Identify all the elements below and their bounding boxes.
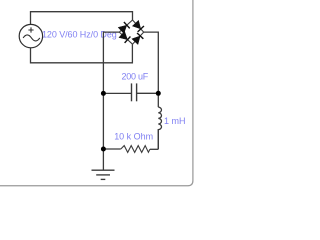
svg-text:120 V/60 Hz/0 Deg: 120 V/60 Hz/0 Deg [42,30,117,40]
svg-text:10 k Ohm: 10 k Ohm [114,132,153,142]
svg-text:1 mH: 1 mH [164,116,186,126]
svg-text:200 uF: 200 uF [122,71,149,81]
